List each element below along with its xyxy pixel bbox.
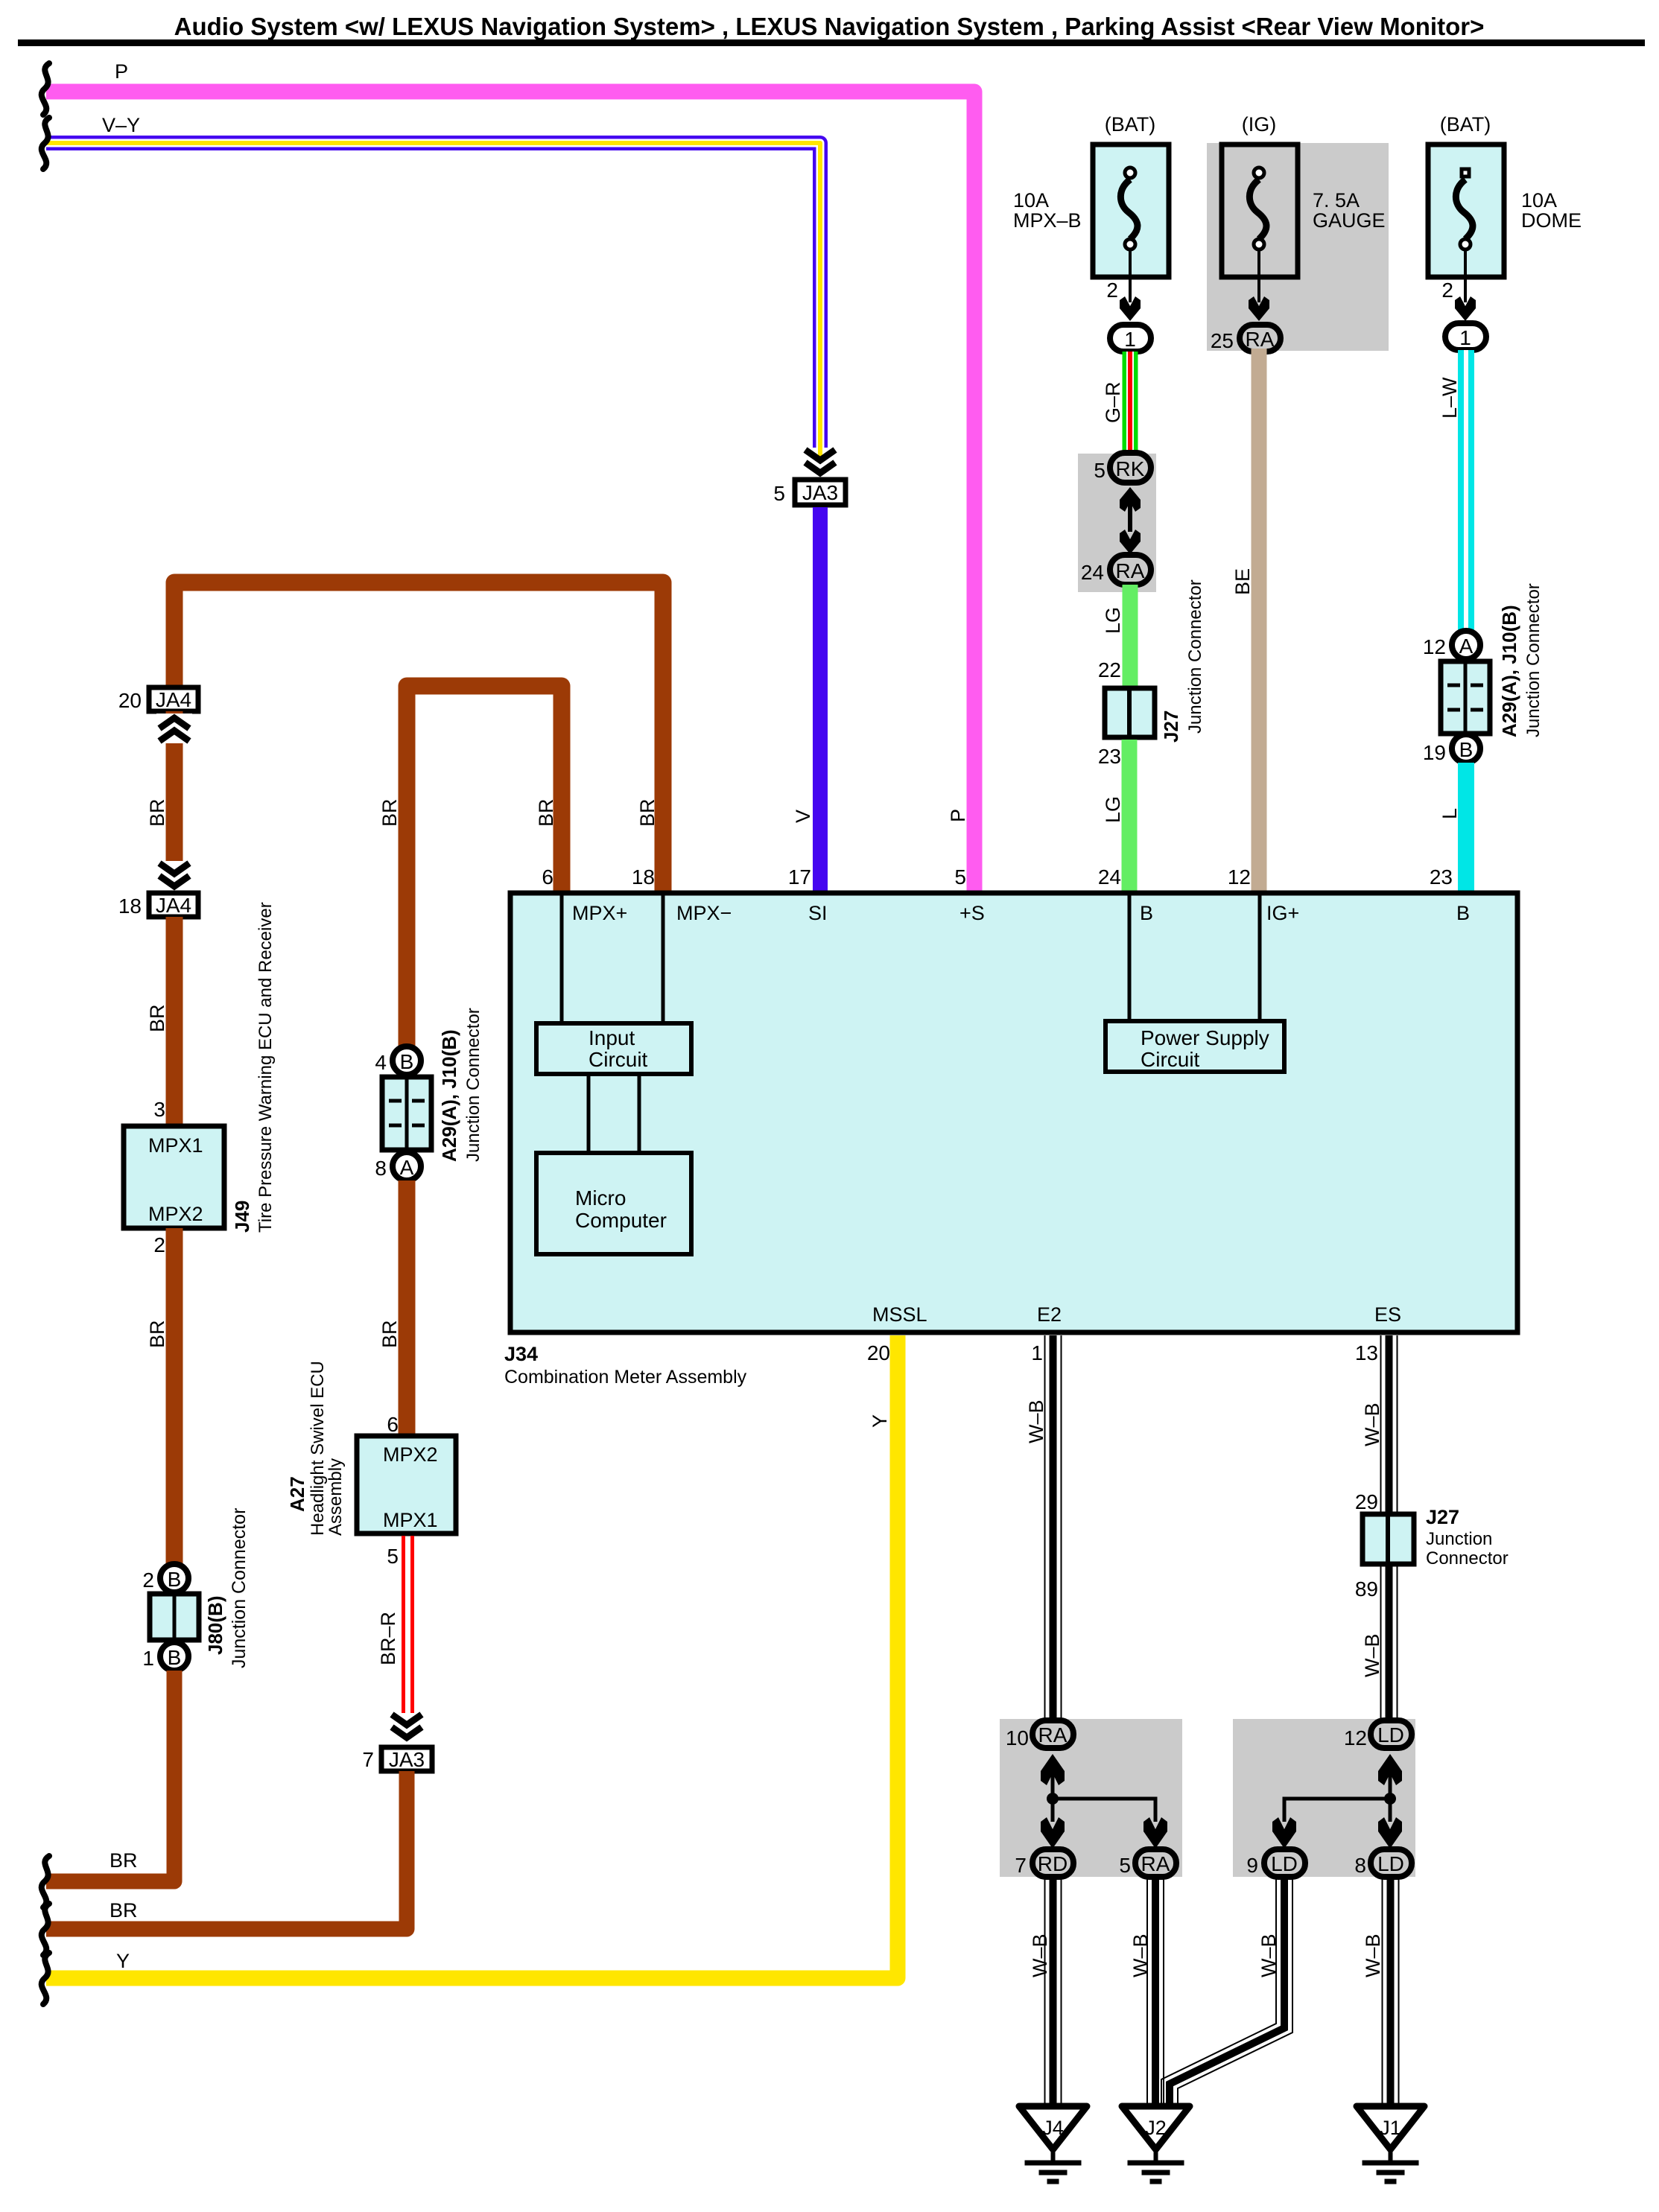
- internal wire pin24 to Power Supply: [1128, 893, 1132, 1021]
- svg-text:23: 23: [1098, 745, 1121, 768]
- connector JA3 pin7: [362, 1747, 432, 1771]
- svg-text:BR: BR: [378, 798, 401, 827]
- svg-text:1: 1: [1459, 326, 1471, 349]
- gray block RK/RA: [1078, 454, 1156, 592]
- wire W-B (J27 to LD12): [1381, 1564, 1398, 1722]
- internal wire pin6 to Input Circuit: [560, 893, 564, 1023]
- wire dot down to RD7: [1051, 1799, 1055, 1822]
- connector oval RA pin24: [1081, 555, 1151, 585]
- svg-text:W–B: W–B: [1025, 1399, 1047, 1443]
- svg-text:Junction: Junction: [1426, 1529, 1492, 1549]
- junction dot right: [1384, 1793, 1396, 1805]
- svg-text:GAUGE: GAUGE: [1313, 209, 1386, 232]
- svg-text:Tire Pressure Warning ECU and: Tire Pressure Warning ECU and Receiver: [256, 902, 276, 1233]
- svg-text:LD: LD: [1377, 1723, 1404, 1747]
- svg-text:12: 12: [1344, 1726, 1367, 1749]
- svg-text:4: 4: [375, 1051, 387, 1074]
- svg-text:18: 18: [118, 894, 142, 918]
- svg-text:W–B: W–B: [1362, 1933, 1384, 1977]
- svg-text:Junction Connector: Junction Connector: [1523, 583, 1544, 737]
- ground J2: [1122, 2106, 1190, 2181]
- wire BR (JA4 20 to JA4 18): [166, 711, 183, 892]
- svg-text:6: 6: [387, 1413, 399, 1436]
- cable mark squiggle BR1: [42, 1856, 49, 1907]
- svg-text:7: 7: [1015, 1854, 1027, 1877]
- svg-text:BR: BR: [146, 798, 168, 827]
- connector JA4 pin18: [118, 893, 198, 918]
- svg-text:5: 5: [387, 1545, 399, 1568]
- cable mark squiggle P: [42, 63, 49, 115]
- svg-text:L–W: L–W: [1438, 377, 1461, 419]
- svg-text:P: P: [115, 60, 128, 83]
- svg-text:5: 5: [1119, 1854, 1131, 1877]
- wire W-B (ES pin13 to J27): [1381, 1335, 1398, 1514]
- junction box J80(B): [150, 1594, 199, 1640]
- ECU J49 Tire Pressure Warning: [124, 1126, 224, 1228]
- svg-text:2: 2: [142, 1569, 154, 1592]
- connector oval RA pin25: [1211, 325, 1281, 352]
- svg-text:MPX2: MPX2: [148, 1203, 203, 1225]
- svg-text:L: L: [1438, 808, 1461, 819]
- ground J4: [1019, 2106, 1087, 2181]
- svg-text:RA: RA: [1116, 559, 1145, 582]
- svg-text:J27: J27: [1160, 711, 1182, 743]
- wire dot to RA5 branch: [1053, 1799, 1155, 1822]
- svg-text:B: B: [1140, 902, 1153, 924]
- circle B pin1: [142, 1642, 188, 1671]
- junction box A29/J10 right: [1441, 661, 1490, 734]
- svg-text:RD: RD: [1038, 1852, 1068, 1875]
- connector oval RA pin10: [1006, 1720, 1073, 1749]
- svg-text:19: 19: [1423, 741, 1446, 764]
- svg-text:2: 2: [1441, 279, 1453, 302]
- svg-text:JA4: JA4: [156, 688, 191, 711]
- svg-text:13: 13: [1355, 1341, 1378, 1364]
- svg-text:BR–R: BR–R: [377, 1612, 399, 1665]
- wire to junction dot right: [1389, 1772, 1392, 1799]
- svg-text:JA3: JA3: [389, 1748, 425, 1771]
- svg-text:J4: J4: [1042, 2117, 1064, 2139]
- svg-text:W–B: W–B: [1129, 1933, 1152, 1977]
- wire BR (JA3 7 down-left to edge): [46, 1771, 407, 1929]
- svg-text:BR: BR: [636, 798, 659, 827]
- svg-text:Junction Connector: Junction Connector: [229, 1508, 250, 1668]
- svg-text:(BAT): (BAT): [1440, 113, 1491, 136]
- svg-text:Computer: Computer: [575, 1209, 667, 1232]
- cable mark squiggle V-Y: [42, 118, 49, 169]
- svg-text:Headlight Swivel ECU: Headlight Swivel ECU: [308, 1361, 328, 1536]
- fuse 10A MPX-B: [1013, 113, 1169, 277]
- svg-text:7. 5A: 7. 5A: [1313, 189, 1360, 212]
- svg-text:1: 1: [1031, 1341, 1043, 1364]
- connector oval LD pin8: [1354, 1849, 1412, 1877]
- svg-text:10A: 10A: [1521, 189, 1557, 212]
- svg-text:12: 12: [1228, 865, 1251, 889]
- gray block left (RA/RD/RA): [1000, 1719, 1182, 1877]
- wire W-B (E2 pin1 to RA10): [1045, 1335, 1062, 1722]
- svg-text:10: 10: [1006, 1726, 1029, 1749]
- chevron into JA3(7): [392, 1714, 422, 1738]
- svg-text:BR: BR: [146, 1004, 168, 1032]
- svg-text:24: 24: [1081, 561, 1104, 584]
- svg-text:DOME: DOME: [1521, 209, 1582, 232]
- svg-text:BR: BR: [378, 1320, 401, 1348]
- connector oval RA pin5: [1119, 1849, 1176, 1877]
- svg-text:B: B: [1459, 738, 1474, 761]
- wire BR (JA4 18 to J49): [166, 917, 183, 1126]
- svg-text:Combination Meter Assembly: Combination Meter Assembly: [504, 1367, 747, 1388]
- gray block right (LD group): [1233, 1719, 1415, 1877]
- wire dot down to LD8: [1389, 1799, 1392, 1822]
- svg-text:J2: J2: [1145, 2117, 1167, 2139]
- wire V (JA3 to SI pin17): [813, 507, 828, 891]
- svg-text:8: 8: [375, 1157, 387, 1180]
- svg-text:89: 89: [1355, 1577, 1378, 1601]
- svg-text:Input: Input: [589, 1026, 635, 1049]
- junction connector J27 (meter): [1105, 688, 1155, 737]
- arrow up to RA10: [1041, 1754, 1065, 1785]
- fuse wire + arrow to oval 1 (DOME): [1441, 250, 1476, 321]
- svg-text:Y: Y: [869, 1414, 891, 1428]
- svg-text:5: 5: [954, 865, 966, 889]
- svg-text:Circuit: Circuit: [589, 1048, 648, 1071]
- svg-text:J80(B): J80(B): [204, 1596, 226, 1655]
- svg-text:18: 18: [632, 865, 655, 889]
- fuse 10A DOME: [1428, 113, 1582, 277]
- wire BR (A8 to A27 pin6): [399, 1180, 416, 1436]
- circle B pin19: [1423, 734, 1480, 764]
- svg-text:BR: BR: [146, 1320, 168, 1348]
- wire W-B (RA5 to J2): [1147, 1877, 1164, 2108]
- fuse wire + arrow to oval RA: [1249, 250, 1269, 321]
- junction dot: [1047, 1793, 1059, 1805]
- svg-text:Power Supply: Power Supply: [1141, 1026, 1269, 1049]
- internal wire pin18 to Input Circuit: [662, 893, 665, 1023]
- svg-text:BE: BE: [1231, 568, 1254, 595]
- svg-text:LG: LG: [1102, 607, 1124, 634]
- wire LG (J27 to pin24): [1122, 740, 1138, 891]
- wire BR (J80 B1 down-left to edge): [46, 1671, 174, 1881]
- svg-text:B: B: [168, 1646, 182, 1669]
- svg-text:A29(A), J10(B): A29(A), J10(B): [438, 1029, 460, 1162]
- svg-text:G–R: G–R: [1102, 381, 1124, 423]
- svg-text:B: B: [168, 1568, 182, 1591]
- svg-text:P: P: [947, 809, 969, 822]
- connector oval LD pin9: [1246, 1849, 1305, 1877]
- connector oval 1 (MPX-B): [1110, 325, 1151, 352]
- cable mark squiggle BR2: [42, 1904, 49, 1955]
- fuse 7.5A GAUGE: [1222, 113, 1386, 277]
- svg-text:SI: SI: [808, 902, 828, 924]
- svg-text:1: 1: [1124, 328, 1136, 351]
- svg-text:LD: LD: [1377, 1852, 1404, 1875]
- svg-text:V: V: [792, 810, 814, 823]
- wire dot to LD9 branch: [1284, 1799, 1390, 1822]
- svg-text:LG: LG: [1102, 796, 1124, 823]
- svg-text:(BAT): (BAT): [1105, 113, 1156, 136]
- svg-text:V–Y: V–Y: [102, 114, 140, 136]
- svg-text:29: 29: [1355, 1490, 1378, 1513]
- svg-text:RA: RA: [1038, 1723, 1068, 1747]
- svg-text:A27: A27: [286, 1476, 308, 1512]
- svg-text:E2: E2: [1037, 1303, 1062, 1326]
- svg-text:MPX1: MPX1: [148, 1134, 203, 1157]
- svg-text:25: 25: [1211, 329, 1234, 352]
- wire W-B (LD8 to J1): [1383, 1877, 1399, 2108]
- svg-text:Micro: Micro: [575, 1186, 626, 1210]
- internal wires Input to Micro Computer: [589, 1074, 639, 1153]
- svg-text:J1: J1: [1380, 2117, 1401, 2139]
- svg-text:J49: J49: [231, 1201, 253, 1233]
- svg-text:3: 3: [153, 1098, 165, 1121]
- block Input Circuit: [536, 1023, 691, 1074]
- svg-text:W–B: W–B: [1029, 1933, 1051, 1977]
- title rule: [18, 39, 1645, 46]
- svg-text:MSSL: MSSL: [872, 1303, 927, 1326]
- wire BR-R (A27 pin5 to chevron): [404, 1536, 413, 1713]
- internal wire IG+ to Power Supply: [1258, 893, 1262, 1021]
- svg-text:1: 1: [142, 1647, 154, 1670]
- wire P (horizontal+vertical to +S): [46, 92, 974, 891]
- wire LG (RA to J27): [1123, 585, 1138, 686]
- svg-text:MPX−: MPX−: [676, 902, 732, 924]
- junction connector J27 (lower): [1363, 1514, 1414, 1564]
- svg-text:BR: BR: [535, 798, 557, 827]
- svg-text:BR: BR: [110, 1849, 138, 1872]
- chevron up (below JA4 20): [156, 714, 192, 743]
- cable mark squiggle Y: [42, 1953, 49, 2004]
- junction J80(B): circle B pin2: [142, 1564, 188, 1592]
- ECU J34 Combination Meter Assembly: [510, 893, 1517, 1332]
- svg-text:24: 24: [1098, 865, 1121, 889]
- wire BR (J49 to J80 B2): [166, 1228, 183, 1564]
- svg-text:Assembly: Assembly: [326, 1458, 346, 1536]
- svg-text:20: 20: [118, 689, 142, 712]
- wire V-Y (violet with yellow stripe): [46, 143, 820, 462]
- svg-text:17: 17: [788, 865, 811, 889]
- svg-text:Connector: Connector: [1426, 1548, 1509, 1569]
- arrow down to LD8: [1378, 1817, 1402, 1849]
- fuse wire + arrow to oval 1: [1106, 250, 1141, 321]
- gray block behind GAUGE fuse: [1207, 143, 1389, 351]
- svg-text:2: 2: [153, 1233, 165, 1256]
- svg-text:BR: BR: [110, 1899, 138, 1922]
- svg-text:A: A: [400, 1156, 414, 1179]
- connector oval 1 (DOME): [1445, 323, 1486, 350]
- svg-text:7: 7: [362, 1748, 374, 1771]
- svg-text:6: 6: [542, 865, 553, 889]
- svg-text:RA: RA: [1141, 1852, 1170, 1875]
- svg-text:ES: ES: [1374, 1303, 1401, 1326]
- svg-text:RK: RK: [1116, 457, 1145, 480]
- connector oval RK pin5: [1094, 453, 1151, 483]
- svg-text:W–B: W–B: [1361, 1402, 1383, 1446]
- svg-text:5: 5: [1094, 459, 1106, 482]
- svg-text:B: B: [1456, 902, 1470, 924]
- arrow down to LD9: [1272, 1817, 1296, 1849]
- svg-text:Y: Y: [116, 1950, 130, 1972]
- connector JA4 pin20: [118, 687, 198, 712]
- ground J1: [1357, 2106, 1424, 2181]
- wire BR (pin6 up-left-down through A29/J10 to A27): [407, 686, 562, 1047]
- arrow down to RA5: [1143, 1817, 1167, 1849]
- svg-text:W–B: W–B: [1257, 1933, 1280, 1977]
- wire W-B (LD9 diagonal to J2): [1161, 1877, 1292, 2108]
- svg-text:MPX+: MPX+: [572, 902, 627, 924]
- svg-text:LD: LD: [1271, 1852, 1298, 1875]
- svg-text:12: 12: [1423, 635, 1446, 658]
- double arrow RK-RA: [1120, 487, 1141, 554]
- svg-text:Junction Connector: Junction Connector: [1185, 579, 1205, 734]
- wire BE (RA25 to IG+): [1252, 349, 1267, 891]
- svg-text:MPX2: MPX2: [383, 1443, 438, 1466]
- svg-text:J27: J27: [1426, 1506, 1459, 1528]
- svg-text:MPX1: MPX1: [383, 1509, 438, 1531]
- wire W-B (RD7 to J4): [1045, 1877, 1062, 2108]
- block Power Supply Circuit: [1106, 1021, 1284, 1072]
- ECU A27 Headlight Swivel: [357, 1436, 456, 1534]
- wire to junction dot: [1051, 1772, 1055, 1799]
- arrow down to RD7: [1041, 1817, 1065, 1849]
- connector oval LD pin12: [1344, 1720, 1412, 1749]
- svg-text:23: 23: [1430, 865, 1453, 889]
- svg-text:W–B: W–B: [1361, 1633, 1383, 1677]
- junction A29(A),J10(B) left: circle B pin4: [375, 1046, 421, 1075]
- svg-text:9: 9: [1246, 1854, 1258, 1877]
- svg-text:22: 22: [1098, 658, 1121, 681]
- svg-text:5: 5: [773, 482, 785, 505]
- svg-text:10A: 10A: [1013, 189, 1049, 212]
- wire BR (pin18 up-left-down to JA4 20): [174, 582, 663, 891]
- svg-text:Audio System <w/ LEXUS Navigat: Audio System <w/ LEXUS Navigation System…: [174, 13, 1485, 40]
- wire L-W (DOME to A circle): [1458, 350, 1474, 632]
- svg-text:A29(A), J10(B): A29(A), J10(B): [1498, 605, 1520, 737]
- svg-text:8: 8: [1354, 1854, 1366, 1877]
- svg-text:+S: +S: [959, 902, 985, 924]
- wire L (B19 to pin23): [1458, 763, 1474, 891]
- circle A pin8: [375, 1152, 421, 1180]
- svg-text:20: 20: [867, 1341, 890, 1364]
- svg-text:A: A: [1459, 635, 1474, 658]
- junction box A29/J10 left: [382, 1077, 431, 1150]
- svg-text:Circuit: Circuit: [1141, 1048, 1200, 1071]
- svg-text:B: B: [400, 1050, 414, 1073]
- svg-text:RA: RA: [1246, 328, 1275, 351]
- svg-text:JA4: JA4: [156, 894, 191, 917]
- junction connector A29(A),J10(B) right: circle A pin12: [1423, 631, 1480, 659]
- wire G-R (fuse1 to RK): [1123, 352, 1138, 454]
- wire Y (edge to MSSL pin20): [46, 1335, 898, 1978]
- connector JA3 pin5: [773, 480, 846, 505]
- svg-text:2: 2: [1106, 279, 1118, 302]
- svg-text:MPX–B: MPX–B: [1013, 209, 1082, 232]
- svg-text:J34: J34: [504, 1343, 538, 1365]
- chevron down (above JA4 18): [156, 861, 192, 891]
- block Micro Computer: [536, 1153, 691, 1254]
- connector oval RD pin7: [1015, 1849, 1073, 1877]
- chevron into JA3(5): [805, 450, 835, 473]
- svg-text:JA3: JA3: [802, 481, 838, 504]
- svg-text:Junction Connector: Junction Connector: [463, 1008, 483, 1162]
- svg-text:IG+: IG+: [1266, 902, 1299, 924]
- svg-text:(IG): (IG): [1242, 113, 1277, 136]
- arrow up to LD12: [1378, 1754, 1402, 1785]
